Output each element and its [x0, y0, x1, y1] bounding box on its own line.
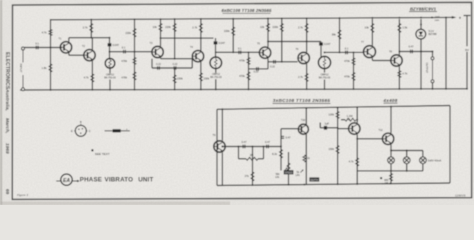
resistor R9 220k bias	[174, 19, 176, 59]
transistor T11	[349, 123, 360, 134]
battery B1 9V	[464, 15, 471, 17]
resistor R26 27k	[252, 147, 254, 186]
node T1 base junction	[50, 47, 52, 49]
capacitor C8 0.22	[274, 60, 276, 64]
oscillator box top rail	[217, 106, 450, 110]
wire T12 collector	[390, 107, 392, 133]
wire T5 emitter to T6 base	[267, 59, 269, 62]
wire coupling stage 3	[216, 51, 259, 53]
note SEE TEXT	[91, 149, 93, 151]
capacitor C15 0.47 vertical	[280, 129, 282, 147]
capacitor C10 0.047 ceramic	[320, 41, 322, 44]
legend transistor basing diagram	[75, 125, 86, 136]
resistor R3 2.7k T2 load	[90, 19, 92, 38]
input jack cable line	[22, 50, 24, 87]
bias divider resistors R6 R7 470k	[134, 52, 136, 89]
transistor T5	[259, 47, 270, 58]
bias divider resistors R21 R22 470k	[353, 52, 355, 89]
resistor R2 1.8k bottom bias	[50, 48, 52, 90]
lamp L3	[422, 151, 424, 158]
resistor R27 1M horizontal	[239, 158, 247, 160]
wire coupling stage 2	[110, 51, 152, 53]
wire T1 collector bus	[68, 38, 70, 41]
input jack terminals	[22, 47, 25, 50]
wire T5 collector bus	[267, 42, 269, 47]
capacitor C7 0.1	[239, 51, 241, 55]
label DEPTH	[309, 177, 319, 181]
outer border frame	[12, 2, 471, 199]
junction dots on ground rail	[50, 89, 52, 91]
wire to T11 base	[338, 128, 349, 130]
resistor R31 1.2M	[356, 107, 358, 119]
capacitors C4 C5 0.22 phase network	[152, 67, 192, 69]
wire right side branch	[445, 17, 447, 88]
oscillator box bottom rail	[217, 183, 450, 186]
output jack terminals	[432, 52, 434, 57]
transistor T1	[60, 42, 71, 53]
resistor R13 220k bias feed	[232, 19, 234, 52]
resistor R20 39k bias feed	[339, 19, 341, 52]
bias divider resistors R14 R15 470k	[248, 52, 250, 89]
wire T2 collector	[91, 38, 93, 50]
resistor R18 2.7k T6 load	[306, 19, 308, 42]
speed pot VR1 50k	[288, 152, 290, 185]
lamp L2	[406, 151, 408, 158]
wire T1 emitter to T2 base	[68, 54, 70, 56]
wire T3 emitter to T4 base	[160, 57, 162, 59]
resistor R17 220k bias	[281, 19, 283, 62]
resistor R28 8.2k	[280, 147, 282, 171]
output wire with capacitor C12 0.47	[399, 51, 432, 53]
resistor R10 150k	[174, 68, 176, 89]
resistor R33 680 ohm 1W	[390, 171, 392, 184]
ground/return rail	[20, 89, 467, 90]
transistor T6	[298, 52, 309, 63]
scan edge shadow left	[0, 0, 2, 205]
lamp bus top	[391, 150, 423, 152]
transistor T7	[364, 46, 376, 58]
wire T9 emitter	[221, 153, 223, 186]
wire T2 emitter with resistor R4 4.7k	[91, 61, 93, 89]
capacitor C14 0.47	[267, 145, 269, 149]
wire coupling output stage	[325, 51, 364, 53]
wire input to C1	[25, 47, 63, 49]
depth pot VR2 5k	[303, 146, 305, 148]
transistor T2	[84, 50, 95, 61]
wire T9 base	[216, 147, 219, 149]
EA magazine logo	[61, 174, 72, 185]
lamp L1	[390, 151, 392, 158]
output jack cable line	[432, 60, 434, 80]
resistor R5 220k bias feed	[134, 19, 136, 52]
wire T3 collector bus	[160, 38, 162, 46]
wire T4 collector	[200, 38, 202, 50]
transistor T10	[298, 124, 308, 134]
resistor R23 10k T7 load	[371, 19, 373, 45]
resistor R29 120k	[337, 108, 339, 128]
resistor R30 150k	[337, 128, 339, 184]
wire T11 emitter to T12 base	[356, 135, 358, 139]
positive supply rail	[51, 17, 453, 19]
oscillator box right edge	[449, 106, 451, 184]
capacitor label .0047 CER on rail	[431, 17, 433, 19]
capacitor C11 0.1	[346, 51, 348, 55]
wire LDR1 to ground rail	[109, 68, 111, 73]
label OUTPUT	[425, 62, 432, 77]
transistor T12	[382, 133, 393, 144]
resistor R16 10k T5 load	[267, 19, 269, 42]
phase network wire	[222, 146, 281, 148]
resistor R8 10k T3 load	[160, 19, 162, 38]
resistor R11 2.7k T4 load	[200, 19, 202, 38]
junction dots on supply rail	[90, 19, 92, 21]
wire T10 emitter	[305, 134, 307, 185]
LDR 1 ORP12 photocell	[109, 47, 111, 59]
resistor R1 4.7k top bias	[50, 19, 52, 48]
legend diode symbol	[105, 130, 130, 132]
wire T11 collector	[356, 120, 358, 123]
wire T4 emitter with resistor R12 2.7k	[200, 62, 202, 89]
wire T9 collector	[221, 109, 223, 140]
lamp bus bottom	[390, 164, 392, 171]
resistor R32 4.7k	[356, 139, 358, 184]
wire T10 collector	[305, 108, 307, 124]
capacitor C1 0.1	[36, 46, 38, 50]
transistor T4	[192, 51, 203, 62]
label INPUT	[19, 63, 26, 76]
wire zener branch to ground	[420, 52, 422, 90]
supply rail arrowhead and plus	[452, 16, 457, 19]
LDR 3 ORP12 photocell	[320, 46, 322, 57]
capacitor C6 0.047 ceramic	[215, 38, 217, 41]
label SPEED	[284, 170, 294, 174]
wire T8 emitter with resistor R25 4.7k	[398, 67, 400, 90]
coupling capacitor C16 1uF	[319, 123, 321, 128]
wire LDR3 to ground rail	[324, 69, 326, 73]
wire to T10 base	[281, 128, 298, 130]
wire T6 collector	[306, 42, 308, 53]
capacitor C2 0.047 ceramic	[109, 38, 111, 44]
capacitor C13 0.47	[243, 145, 245, 149]
transistor T3	[152, 46, 163, 57]
oscillator box left edge	[216, 109, 218, 185]
transistor T9	[214, 141, 225, 152]
resistor R24 1.5k T8 load	[398, 19, 400, 54]
wire T12 emitter to lamp bus	[390, 145, 392, 151]
capacitor C9 0.22 lower	[249, 68, 269, 70]
wire T7 emitter to T8 base	[371, 58, 373, 60]
wire T6 emitter with resistor R19 2.7k	[306, 64, 308, 89]
capacitor C3 0.1	[124, 50, 126, 54]
junction dots bottom box rails	[252, 184, 254, 186]
transistor T8	[391, 55, 402, 66]
wire LDR2 to ground rail	[215, 69, 217, 73]
zener diode D1 BZY88 C9V1	[420, 19, 422, 29]
LDR 2 ORP12 photocell	[215, 45, 217, 57]
